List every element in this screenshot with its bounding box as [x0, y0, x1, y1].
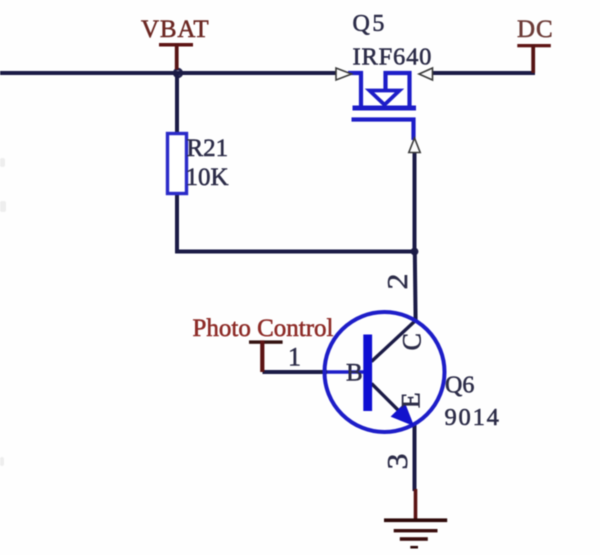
svg-text:Photo Control: Photo Control	[193, 315, 334, 342]
svg-text:3: 3	[382, 454, 414, 470]
svg-text:DC: DC	[517, 16, 554, 43]
svg-text:E: E	[396, 392, 425, 408]
svg-text:C: C	[397, 333, 426, 350]
svg-text:Q5: Q5	[353, 11, 387, 37]
svg-text:10K: 10K	[186, 164, 229, 191]
svg-text:R21: R21	[187, 135, 229, 162]
svg-text:2: 2	[382, 274, 414, 290]
svg-text:B: B	[346, 360, 363, 387]
svg-text:IRF640: IRF640	[353, 43, 433, 70]
svg-text:9014: 9014	[445, 404, 501, 431]
svg-text:Q6: Q6	[445, 373, 474, 399]
svg-text:VBAT: VBAT	[141, 16, 209, 43]
svg-text:1: 1	[288, 343, 301, 372]
